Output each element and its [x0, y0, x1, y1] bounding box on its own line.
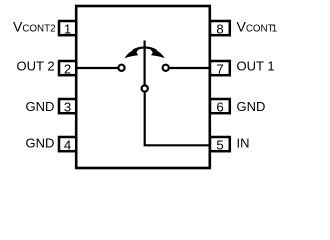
- wire right contact to pin 7: [170, 67, 210, 69]
- svg-text:3: 3: [64, 100, 71, 115]
- svg-text:7: 7: [216, 62, 223, 77]
- svg-text:GND: GND: [26, 135, 55, 150]
- svg-text:1: 1: [64, 22, 71, 37]
- svg-text:OUT 1: OUT 1: [237, 58, 275, 73]
- svg-text:6: 6: [216, 100, 223, 115]
- svg-text:GND: GND: [237, 99, 266, 114]
- left contact circle (throw 2): [118, 65, 124, 71]
- pin 6 box: [210, 99, 230, 115]
- pin 5 box: [210, 137, 230, 153]
- pin 4 box: [59, 137, 76, 153]
- switch arm (vertical): [144, 41, 146, 86]
- svg-text:8: 8: [216, 22, 223, 37]
- switch pole circle: [142, 85, 148, 91]
- pin 2 box: [59, 61, 76, 77]
- wire pole to pin 5: [145, 92, 210, 146]
- pin 1 box: [59, 21, 76, 37]
- wire pin 2 to left contact: [77, 67, 118, 69]
- IC body U1: [76, 6, 210, 168]
- svg-text:OUT 2: OUT 2: [17, 58, 55, 73]
- svg-text:GND: GND: [26, 99, 55, 114]
- svg-text:2: 2: [64, 62, 71, 77]
- svg-text:IN: IN: [237, 135, 250, 150]
- curved double arrow: [125, 47, 165, 59]
- pin 3 box: [59, 99, 76, 115]
- pin 7 box: [210, 61, 230, 77]
- pin 8 box: [210, 21, 230, 37]
- svg-text:4: 4: [64, 138, 71, 153]
- svg-text:VCONT1: VCONT1: [237, 18, 278, 34]
- svg-text:VCONT2: VCONT2: [13, 18, 56, 34]
- right contact circle (throw 1): [163, 65, 169, 71]
- svg-text:5: 5: [216, 138, 223, 153]
